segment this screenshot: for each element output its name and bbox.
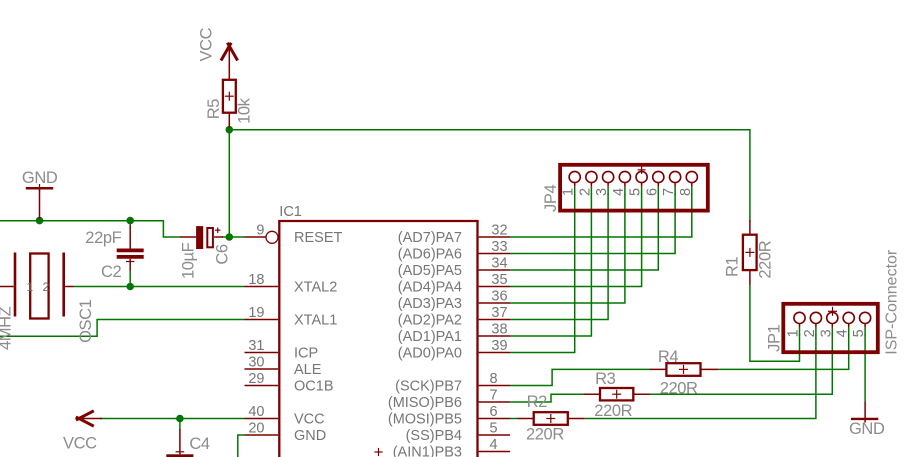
pin 8 PB7 (479, 385, 510, 387)
wire PA3 to JP4 pin4 (510, 194, 625, 304)
junction node C2 top (126, 217, 134, 225)
svg-text:29: 29 (248, 371, 264, 387)
junction node C2 bottom XTAL2 (126, 283, 134, 291)
svg-text:5: 5 (489, 421, 497, 437)
svg-text:XTAL1: XTAL1 (294, 313, 337, 329)
svg-text:RESET: RESET (294, 230, 342, 246)
wire JP1 pin5 to GND (864, 335, 866, 403)
svg-text:(AD0)PA0: (AD0)PA0 (398, 346, 462, 362)
svg-text:220R: 220R (757, 240, 775, 278)
capacitor C4 (166, 429, 193, 457)
svg-text:VCC: VCC (63, 434, 97, 452)
wire R4 to JP1 pin4 (718, 335, 849, 370)
pin 36 PA3 (479, 302, 510, 304)
wire PB6 to R3 (510, 394, 583, 402)
svg-text:4: 4 (489, 437, 497, 453)
wire XTAL1 net (0, 320, 245, 337)
resistor R1 (743, 220, 757, 285)
JP4 pin 3 (603, 171, 614, 194)
pin 40 VCC (245, 418, 279, 420)
pin 39 PA0 (479, 352, 510, 354)
pin 32 PA7 (479, 236, 510, 238)
svg-text:R3: R3 (595, 370, 616, 388)
svg-text:(SS)PB4: (SS)PB4 (406, 428, 462, 444)
svg-text:33: 33 (491, 239, 507, 255)
svg-text:220R: 220R (526, 426, 564, 444)
resistor R5 (223, 80, 236, 128)
svg-text:38: 38 (491, 322, 507, 338)
svg-text:(AD1)PA1: (AD1)PA1 (398, 329, 462, 345)
svg-text:XTAL2: XTAL2 (294, 280, 337, 296)
pin 38 PA1 (479, 335, 510, 337)
pin 37 PA2 (479, 319, 510, 321)
svg-text:IC1: IC1 (279, 204, 302, 220)
svg-text:2: 2 (802, 329, 818, 337)
wire VCC bottom net (100, 418, 245, 420)
JP4 pin 8 (686, 171, 697, 194)
pin 34 PA5 (479, 269, 510, 271)
svg-text:3: 3 (594, 188, 610, 196)
svg-text:4MHZ: 4MHZ (0, 306, 15, 350)
svg-text:1: 1 (561, 188, 577, 196)
svg-text:40: 40 (248, 404, 264, 420)
junction node VCC C4 (176, 415, 184, 423)
svg-text:35: 35 (491, 272, 507, 288)
pin 20 GND (245, 434, 279, 436)
wire RESET (222, 236, 245, 238)
svg-text:7: 7 (489, 388, 497, 404)
JP4 pin 6 (653, 171, 664, 194)
svg-text:ALE: ALE (294, 362, 322, 378)
power symbol VCC top arrow (221, 43, 238, 80)
svg-text:4: 4 (611, 188, 627, 196)
svg-text:20: 20 (248, 421, 264, 437)
JP4 origin cross (638, 166, 646, 174)
svg-text:C6: C6 (214, 244, 232, 265)
svg-text:5: 5 (628, 188, 644, 196)
wire PA6 to JP4 pin7 (510, 194, 675, 254)
wire R5 to R1 top run (229, 130, 750, 221)
power symbol VCC bottom arrow (76, 411, 102, 426)
wire GND pin20 (238, 435, 245, 457)
svg-text:GND: GND (849, 420, 885, 438)
pin 9 RESET with bubble (245, 231, 279, 243)
pin 29 OC1B (245, 385, 279, 387)
capacitor C6 polarized (180, 226, 223, 249)
JP1 pin 2 (810, 312, 821, 335)
svg-text:10µF: 10µF (180, 242, 198, 279)
pin 33 PA6 (479, 253, 510, 255)
svg-text:37: 37 (491, 305, 507, 321)
capacitor C2 (117, 225, 144, 271)
svg-text:R4: R4 (658, 348, 679, 366)
JP1 pin 4 (843, 312, 854, 335)
svg-text:(AD4)PA4: (AD4)PA4 (398, 280, 462, 296)
svg-text:19: 19 (248, 305, 264, 321)
svg-text:1: 1 (27, 280, 34, 294)
pin 31 ICP (245, 352, 279, 354)
svg-text:32: 32 (491, 223, 507, 239)
pin 30 ALE (245, 368, 279, 370)
svg-text:R1: R1 (724, 256, 742, 277)
resistor R3 (583, 388, 649, 400)
ground symbol GND bottom right (851, 402, 878, 423)
svg-text:7: 7 (661, 188, 677, 196)
connector JP1 box (783, 304, 878, 352)
svg-text:3: 3 (818, 329, 834, 337)
JP4 pin 1 (569, 171, 580, 194)
svg-text:34: 34 (491, 256, 507, 272)
wire PA7 to JP4 pin8 (510, 194, 692, 238)
svg-text:6: 6 (644, 188, 660, 196)
svg-text:2: 2 (43, 280, 50, 294)
svg-text:OSC1: OSC1 (77, 299, 95, 343)
wire R1 to JP1 pin1 (750, 285, 800, 362)
svg-text:(AIN1)PB3: (AIN1)PB3 (393, 445, 462, 457)
wire PA0 to JP4 pin1 (510, 194, 575, 353)
svg-text:8: 8 (489, 371, 497, 387)
wire XTAL2 net (74, 286, 245, 288)
svg-text:C2: C2 (101, 263, 122, 281)
junction node R5 bottom (226, 126, 234, 134)
pin 35 PA4 (479, 286, 510, 288)
pin 5 PB4 (479, 434, 510, 436)
svg-text:(AD2)PA2: (AD2)PA2 (398, 313, 462, 329)
svg-text:10k: 10k (236, 97, 254, 124)
svg-text:4: 4 (835, 329, 851, 337)
JP4 pin 4 (619, 171, 630, 194)
svg-text:30: 30 (248, 355, 264, 371)
svg-text:JP4: JP4 (542, 185, 560, 212)
svg-text:VCC: VCC (294, 412, 325, 428)
pin 18 XTAL2 (245, 286, 279, 288)
svg-text:ISP-Connector: ISP-Connector (884, 249, 901, 355)
svg-text:1: 1 (786, 329, 802, 337)
JP4 pin 2 (586, 171, 597, 194)
wire C4 stub (179, 419, 181, 431)
JP1 pin 3 (827, 312, 838, 335)
IC IC1 box (279, 221, 477, 457)
pin 6 PB5 (479, 418, 510, 420)
svg-text:8: 8 (678, 188, 694, 196)
svg-text:VCC: VCC (198, 27, 216, 61)
svg-text:(SCK)PB7: (SCK)PB7 (395, 379, 462, 395)
wire PA2 to JP4 pin3 (510, 194, 608, 320)
svg-text:C4: C4 (189, 435, 210, 453)
svg-text:2: 2 (577, 188, 593, 196)
pin 7 PB6 (479, 401, 510, 403)
svg-text:ICP: ICP (294, 346, 318, 362)
svg-text:36: 36 (491, 289, 507, 305)
resistor R2 (510, 412, 585, 425)
crystal OSC1 (0, 253, 74, 319)
svg-text:31: 31 (248, 338, 264, 354)
svg-text:220R: 220R (594, 402, 632, 420)
svg-text:18: 18 (248, 272, 264, 288)
svg-text:9: 9 (256, 223, 264, 239)
svg-text:GND: GND (294, 428, 326, 444)
svg-text:JP1: JP1 (765, 324, 783, 351)
JP4 pin 7 (670, 171, 681, 194)
wire PB7 to R4 (510, 369, 650, 385)
IC origin cross (374, 448, 382, 456)
wire PA5 to JP4 pin6 (510, 194, 658, 271)
svg-text:R5: R5 (205, 99, 223, 120)
resistor R4 (650, 363, 719, 376)
wire C2 top stub (129, 221, 131, 226)
wire GND net top (0, 221, 181, 237)
svg-text:22pF: 22pF (85, 229, 121, 247)
svg-text:5: 5 (851, 329, 867, 337)
svg-text:OC1B: OC1B (294, 379, 334, 395)
wire R2 to JP1 pin2 (585, 335, 816, 419)
pin 19 XTAL1 (245, 319, 279, 321)
junction node RESET C6 (226, 233, 234, 241)
JP1 pin 1 (794, 312, 805, 335)
pin 4 PB3 (479, 451, 510, 453)
svg-text:(MOSI)PB5: (MOSI)PB5 (388, 412, 462, 428)
JP1 pin 5 (860, 312, 871, 335)
svg-text:(MISO)PB6: (MISO)PB6 (388, 395, 462, 411)
svg-text:39: 39 (491, 338, 507, 354)
JP4 pin 5 (636, 171, 647, 194)
connector JP4 box (560, 165, 708, 211)
wire R5 down to RESET (228, 130, 230, 237)
JP1 origin cross (828, 307, 837, 316)
wire C2 bottom stub (129, 271, 131, 287)
junction node GND tap (36, 217, 44, 225)
svg-text:(AD5)PA5: (AD5)PA5 (398, 263, 462, 279)
wire PA1 to JP4 pin2 (510, 194, 591, 337)
svg-text:(AD7)PA7: (AD7)PA7 (398, 230, 462, 246)
svg-text:GND: GND (22, 169, 58, 187)
ground symbol GND top (26, 184, 53, 219)
wire PA4 to JP4 pin5 (510, 194, 642, 287)
svg-text:(AD6)PA6: (AD6)PA6 (398, 247, 462, 263)
svg-text:220R: 220R (660, 380, 698, 398)
wire R3 to JP1 pin3 (650, 335, 833, 395)
svg-text:(AD3)PA3: (AD3)PA3 (398, 296, 462, 312)
svg-text:6: 6 (489, 404, 497, 420)
svg-text:R2: R2 (527, 393, 548, 411)
